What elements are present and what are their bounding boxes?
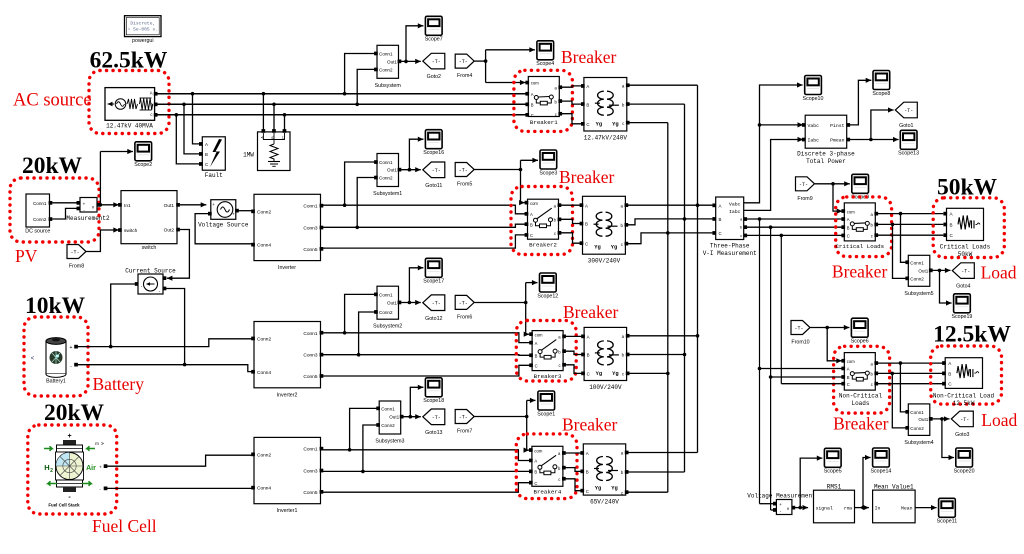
scope Scope14	[870, 448, 891, 474]
critical loads 50kW block	[940, 208, 991, 258]
svg-text:B: B	[531, 103, 534, 108]
scope Scope12	[537, 273, 558, 299]
svg-text:switch: switch	[124, 228, 138, 234]
svg-text:Subsystem2: Subsystem2	[373, 324, 402, 330]
vertical drop phase b	[769, 227, 773, 510]
wire to Scope1	[527, 398, 536, 403]
svg-text:Breaker: Breaker	[832, 262, 888, 282]
svg-text:Conn3: Conn3	[303, 469, 317, 475]
wire Subsystem2 Conn1 tap	[343, 294, 375, 334]
svg-text:switch: switch	[142, 245, 157, 251]
svg-text:c: c	[871, 382, 873, 387]
wire From7 junction	[474, 400, 528, 450]
svg-text:Scope13: Scope13	[898, 151, 919, 157]
wire Subsystem Conn2 tap	[355, 69, 375, 106]
scope Scope2	[134, 142, 152, 168]
svg-text:C: C	[847, 234, 850, 239]
wire Subsystem3 Conn2 tap	[361, 425, 377, 473]
svg-text:-T-: -T-	[70, 250, 79, 256]
wire T3 b to bus	[628, 354, 684, 356]
scope Scope11	[937, 498, 958, 524]
wire T4 c to bus	[628, 491, 668, 493]
wire to Scope14	[863, 455, 871, 508]
wire to Scope12	[526, 280, 538, 285]
annotation 62.5kW	[90, 48, 168, 74]
svg-text:Breaker4: Breaker4	[533, 489, 561, 496]
wire to Subsystem4 Conn2	[892, 373, 906, 428]
svg-text:Fuel Cell Stack: Fuel Cell Stack	[48, 503, 80, 508]
svg-text:B: B	[950, 222, 953, 227]
wire Breaker1c to T1	[561, 114, 582, 124]
wire Breaker1b to T1	[561, 101, 582, 104]
from tag From4	[455, 54, 474, 79]
svg-text:-T-: -T-	[799, 182, 808, 188]
wire to Scope17	[409, 265, 423, 302]
svg-text:Subsystem1: Subsystem1	[373, 191, 402, 197]
annotation Battery label	[93, 374, 145, 394]
wire fault C tap	[175, 113, 202, 164]
wire to Scope2	[100, 149, 132, 154]
scope9 label	[851, 195, 869, 201]
wire From5 junction	[474, 160, 522, 202]
transformer 100V/240V	[581, 327, 629, 390]
svg-text:rms: rms	[844, 507, 853, 512]
svg-text:Conn1: Conn1	[381, 406, 395, 411]
wire critical b to load	[877, 223, 943, 227]
svg-text:Out1: Out1	[387, 168, 397, 173]
svg-text:Conn5: Conn5	[303, 374, 317, 380]
RMS1 block	[814, 490, 855, 523]
svg-text:C: C	[205, 162, 208, 167]
wire to critical com	[833, 184, 842, 214]
wire fault B tap	[182, 103, 201, 154]
bus wire row4 Conn1	[323, 450, 531, 461]
svg-text:In: In	[875, 506, 881, 512]
svg-text:Scope19: Scope19	[951, 314, 972, 320]
scope Scope18	[423, 378, 444, 404]
wire voltmeas out	[795, 505, 808, 510]
svg-text:Discrete,: Discrete,	[130, 21, 155, 27]
switch block	[118, 191, 180, 251]
svg-text:c: c	[559, 363, 561, 368]
wire to Scope5	[800, 456, 822, 508]
svg-text:12.47kV/240V: 12.47kV/240V	[584, 134, 628, 141]
wire Subsystem4 Out1 to Goto3	[932, 416, 950, 421]
wire bus to noncrit C	[781, 383, 842, 385]
svg-text:Non-Critical: Non-Critical	[839, 393, 883, 400]
bus wire VI a to critical breaker	[747, 217, 842, 221]
svg-text:Goto11: Goto11	[425, 183, 442, 189]
scope Scope1	[537, 391, 555, 417]
svg-text:Goto2: Goto2	[427, 74, 441, 80]
critical load dotted box	[933, 198, 1004, 258]
svg-text:Iabc: Iabc	[729, 209, 741, 215]
inverter1 block	[251, 437, 323, 514]
svg-text:powergui: powergui	[132, 38, 154, 44]
annotation Breaker label 4	[562, 415, 618, 435]
inverter2 block	[251, 322, 323, 399]
annotation 10kW	[25, 293, 86, 319]
svg-text:Subsystem5: Subsystem5	[904, 291, 933, 297]
wire Subsystem1 Out1 to Goto11	[401, 167, 421, 172]
svg-text:Scope14: Scope14	[870, 468, 891, 474]
wire to Goto1	[871, 107, 894, 139]
svg-text:-T-: -T-	[961, 269, 970, 275]
svg-text:-T-: -T-	[459, 415, 468, 421]
svg-text:Critical Loads: Critical Loads	[940, 244, 991, 251]
wire to Scope18	[410, 385, 423, 417]
svg-text:A: A	[535, 341, 538, 346]
svg-text:com: com	[847, 209, 855, 214]
annotation Breaker label 2	[559, 167, 615, 187]
1MW load block	[258, 129, 291, 170]
svg-text:com: com	[530, 201, 538, 206]
svg-text:c: c	[554, 231, 556, 236]
svg-text:B: B	[530, 222, 533, 227]
transformer 12.47kV/240V	[581, 78, 630, 142]
svg-text:Out1: Out1	[918, 268, 928, 273]
wire to Breaker1 com	[486, 80, 526, 85]
subsystem U-Subsystem1	[373, 154, 402, 198]
svg-text:Goto3: Goto3	[955, 432, 969, 438]
wire Subsystem Conn1 tap	[343, 54, 375, 96]
from tag From5	[455, 163, 474, 188]
svg-text:Conn2: Conn2	[33, 217, 47, 222]
svg-text:From9: From9	[797, 196, 812, 202]
wire Subsystem5 Out1 to Goto4	[932, 268, 951, 273]
wire Breaker1a to T1	[561, 86, 582, 87]
svg-text:A: A	[205, 142, 208, 147]
measurement2 block	[66, 198, 110, 223]
svg-text:Out1: Out1	[387, 301, 397, 306]
goto tag Goto11	[423, 162, 445, 189]
vertical bus phase a	[696, 85, 700, 452]
wire T3 c to bus	[628, 372, 668, 374]
breaker Breaker4	[529, 446, 566, 495]
svg-text:Conn4: Conn4	[257, 243, 271, 249]
svg-text:Scope11: Scope11	[937, 519, 958, 525]
svg-text:1MW: 1MW	[243, 152, 254, 159]
voltage source block	[198, 200, 249, 229]
wire Vabc to Discrete	[760, 122, 804, 127]
svg-text:Scope5: Scope5	[824, 469, 842, 475]
svg-text:c: c	[558, 477, 560, 482]
scope Scope5	[824, 448, 842, 474]
svg-text:Conn4: Conn4	[257, 370, 271, 376]
svg-text:Pinst: Pinst	[830, 123, 845, 129]
svg-text:Conn1: Conn1	[303, 204, 317, 210]
svg-text:Yg: Yg	[612, 122, 618, 128]
svg-text:Breaker: Breaker	[561, 47, 617, 67]
scope Scope17	[423, 258, 444, 284]
svg-text:Conn2: Conn2	[379, 310, 393, 315]
vertical drop phase a	[758, 219, 762, 504]
svg-text:Conn2: Conn2	[910, 426, 924, 431]
svg-text:Breaker: Breaker	[563, 302, 619, 322]
current source block	[135, 274, 167, 294]
wire to noncritical com	[827, 328, 842, 364]
svg-text:C: C	[719, 231, 722, 236]
svg-text:A: A	[530, 212, 533, 217]
svg-text:Conn1: Conn1	[303, 447, 317, 453]
subsystem U-Subsystem4	[904, 404, 933, 446]
svg-text:Out1: Out1	[387, 59, 397, 64]
svg-text:Total Power: Total Power	[806, 158, 846, 165]
wire bus to noncrit B	[771, 376, 843, 378]
svg-text:Critical Loads: Critical Loads	[835, 243, 884, 250]
svg-text:Conn2: Conn2	[381, 423, 395, 428]
svg-text:Measurement2: Measurement2	[66, 215, 110, 222]
svg-text:A: A	[586, 451, 589, 456]
svg-text:AC source: AC source	[13, 91, 92, 111]
svg-text:Discrete 3-phase: Discrete 3-phase	[797, 151, 855, 158]
wire to Scope19	[940, 270, 952, 305]
subsystem U-Subsystem	[374, 45, 401, 89]
svg-text:Battery1: Battery1	[46, 379, 66, 385]
annotation Breaker label 3	[563, 302, 619, 322]
wire Pinst to Scope8	[850, 78, 871, 125]
svg-text:+: +	[212, 202, 215, 207]
svg-text:Fault: Fault	[205, 172, 223, 179]
svg-text:Fuel Cell: Fuel Cell	[92, 516, 157, 536]
scope Scope8	[872, 71, 890, 97]
svg-text:Out1: Out1	[918, 417, 928, 422]
svg-text:Conn5: Conn5	[303, 247, 317, 253]
AC source block 12.47kV 40MVA	[105, 88, 158, 130]
svg-text:A: A	[534, 459, 537, 464]
svg-text:Scope20: Scope20	[954, 468, 975, 474]
wire to Breaker3 com	[524, 332, 530, 337]
svg-text:A: A	[719, 203, 722, 208]
svg-text:Yg: Yg	[611, 245, 617, 251]
svg-text:Conn1: Conn1	[379, 160, 393, 165]
svg-text:B: B	[586, 470, 589, 475]
wire to Scope7	[406, 23, 423, 61]
wire VS minus to inverter Conn4	[195, 214, 252, 244]
wire From10 junction	[810, 325, 849, 330]
svg-text:Voltage Source: Voltage Source	[198, 221, 249, 228]
svg-text:Subsystem: Subsystem	[375, 83, 402, 89]
svg-text:Load: Load	[981, 410, 1017, 430]
svg-text:-T-: -T-	[960, 417, 969, 423]
svg-text:C: C	[586, 122, 589, 127]
svg-text:V-I Measurement: V-I Measurement	[703, 250, 757, 257]
svg-text:Pmean: Pmean	[830, 138, 845, 144]
svg-text:Breaker: Breaker	[559, 167, 615, 187]
wire From4 junction	[474, 50, 487, 83]
subsystem U-Subsystem5	[904, 255, 933, 296]
svg-text:B: B	[847, 375, 850, 380]
wire rms out	[855, 505, 869, 510]
wire Breaker3c to T3	[565, 365, 582, 374]
svg-text:+: +	[232, 212, 235, 217]
svg-text:Conn2: Conn2	[257, 452, 271, 458]
wire T2 c to VI C	[628, 233, 713, 244]
PV dotted marker box	[10, 178, 99, 242]
bus wire VI c to critical breaker	[747, 234, 842, 238]
svg-text:20kW: 20kW	[44, 400, 105, 426]
svg-text:Battery: Battery	[93, 374, 145, 394]
annotation Breaker label 1	[561, 47, 617, 67]
svg-text:-T-: -T-	[432, 301, 441, 307]
wire Breaker4c to T4	[565, 479, 582, 491]
wire Measurement2 out junction	[99, 152, 103, 207]
svg-text:Scope4: Scope4	[536, 61, 554, 67]
svg-text:Non-Critical Load: Non-Critical Load	[933, 393, 995, 400]
svg-text:B: B	[587, 353, 590, 358]
svg-text:Yg: Yg	[594, 245, 600, 251]
vertical bus phase b	[683, 104, 687, 472]
wire to Scope4	[486, 47, 535, 52]
svg-text:c: c	[740, 233, 742, 238]
wire DCsource Conn2 to Measurement2	[52, 208, 76, 219]
wire Breaker3b to T3	[565, 351, 582, 354]
svg-text:-T-: -T-	[459, 59, 468, 65]
svg-text:10kW: 10kW	[25, 293, 86, 319]
svg-text:Yg: Yg	[596, 371, 602, 377]
annotation Load label noncritical	[981, 410, 1017, 430]
svg-text:Scope6: Scope6	[851, 339, 869, 345]
fuel cell stack block	[44, 433, 107, 508]
inverter row2 block	[251, 194, 323, 271]
vertical drop phase c	[780, 235, 782, 383]
svg-text:Conn1: Conn1	[910, 260, 924, 265]
annotation 1MW	[243, 152, 254, 159]
voltage measurement block	[773, 500, 795, 515]
subsystem U-Subsystem2	[373, 286, 402, 330]
from tag From8	[67, 245, 86, 270]
svg-text:Conn1: Conn1	[303, 331, 317, 337]
svg-text:Yg: Yg	[595, 486, 601, 492]
wire From9 junction	[815, 181, 850, 186]
svg-text:20kW: 20kW	[22, 153, 83, 179]
transformer 300V/240V	[580, 196, 629, 264]
breaker Breaker3	[529, 331, 566, 380]
svg-text:Goto12: Goto12	[425, 316, 442, 322]
wire to Subsystem5 Conn1	[901, 214, 907, 263]
wire Pmean junction	[850, 137, 899, 142]
svg-text:Scope8: Scope8	[872, 91, 890, 97]
svg-text:Breaker: Breaker	[562, 415, 618, 435]
wire battery minus bus	[78, 365, 252, 372]
fuelcell dotted marker box	[28, 425, 117, 514]
svg-text:+: +	[83, 201, 86, 206]
goto tag Goto13	[423, 409, 445, 436]
svg-text:B: B	[586, 102, 589, 107]
svg-text:Yg: Yg	[596, 122, 602, 128]
bus wire phase C row1	[157, 114, 527, 116]
svg-text:Scope2: Scope2	[134, 162, 152, 168]
bus wire row2 Conn3	[323, 224, 527, 227]
svg-text:Three-Phase: Three-Phase	[710, 243, 750, 250]
svg-text:Load: Load	[981, 263, 1017, 283]
bus wire row2 Conn1	[323, 205, 527, 214]
wire Iabc up	[744, 137, 803, 211]
wire noncrit b to load	[877, 372, 943, 376]
wire to Subsystem5 Conn2	[893, 224, 907, 278]
svg-text:A: A	[847, 217, 850, 222]
wire 1MW B tap	[272, 103, 276, 131]
svg-text:Scope16: Scope16	[423, 150, 444, 156]
svg-text:300V/240V: 300V/240V	[588, 258, 621, 265]
non-critical load 12.5kW block	[933, 358, 995, 408]
mean value1 block	[873, 490, 916, 523]
svg-text:B: B	[948, 371, 951, 376]
bus wire phase B row1	[157, 103, 527, 105]
goto tag Goto4	[952, 263, 974, 290]
svg-text:In1: In1	[124, 203, 131, 209]
wire DCsource Conn1 to Measurement2	[52, 202, 76, 204]
scope Scope3	[539, 150, 557, 176]
from tag From6	[455, 295, 474, 320]
svg-text:C: C	[587, 372, 590, 377]
powergui block	[125, 16, 162, 44]
svg-text:com: com	[535, 332, 543, 337]
wire Vabc up	[744, 82, 803, 202]
bus wire row4 Conn5	[323, 483, 531, 493]
svg-text:Conn1: Conn1	[379, 292, 393, 297]
annotation 50kW	[937, 175, 998, 201]
bus wire row3 Conn1	[323, 333, 532, 343]
noncritical breaker dotted box	[834, 346, 890, 413]
svg-text:C: C	[847, 382, 850, 387]
svg-text:-T-: -T-	[794, 326, 803, 332]
svg-text:H: H	[44, 463, 49, 472]
svg-text:C: C	[531, 113, 534, 118]
svg-text:Subsystem3: Subsystem3	[375, 439, 404, 445]
wire T3 a to bus	[628, 335, 697, 337]
wire 1MW C tap	[283, 113, 287, 130]
svg-text:Conn2: Conn2	[257, 209, 271, 215]
wire noncrit a to load	[877, 361, 943, 365]
svg-text:Scope3: Scope3	[539, 170, 557, 176]
svg-text:Goto1: Goto1	[899, 123, 913, 129]
wire critical c to load	[877, 234, 943, 236]
breaker2 dotted marker box	[511, 187, 573, 255]
wire fuelcell plus bus	[107, 455, 252, 466]
wire Subsystem1 Conn2 tap	[355, 178, 375, 230]
bus wire row3 Conn3	[323, 354, 532, 357]
svg-text:Scope1: Scope1	[537, 411, 555, 417]
svg-text:Vabc: Vabc	[729, 201, 741, 207]
svg-text:65V/240V: 65V/240V	[590, 498, 619, 505]
svg-text:Breaker: Breaker	[833, 414, 889, 434]
svg-text:Breaker3: Breaker3	[534, 373, 562, 380]
wire T2 b to VI B	[628, 219, 713, 225]
svg-text:signal: signal	[816, 506, 833, 512]
svg-text:50kW: 50kW	[937, 175, 998, 201]
noncritical load dotted box	[931, 346, 1002, 404]
svg-text:-T-: -T-	[432, 415, 441, 421]
battery dotted marker box	[24, 317, 88, 396]
svg-text:+: +	[70, 345, 73, 351]
svg-text:Conn2: Conn2	[910, 276, 924, 281]
svg-text:com: com	[847, 359, 855, 364]
wire T1 a to bus	[629, 84, 698, 86]
scope Scope7	[425, 16, 443, 42]
from tag From10	[791, 321, 810, 346]
svg-text:Out2: Out2	[164, 228, 175, 234]
svg-text:A: A	[847, 367, 850, 372]
svg-text:Inverter1: Inverter1	[277, 508, 298, 514]
annotation Current Source	[125, 267, 176, 274]
svg-text:Conn1: Conn1	[379, 52, 393, 57]
goto tag Goto3	[951, 411, 973, 438]
wire T1 b to bus	[629, 103, 685, 105]
svg-text:Conn2: Conn2	[257, 337, 271, 343]
scope Scope9	[852, 174, 869, 193]
scope Scope10	[803, 76, 824, 102]
